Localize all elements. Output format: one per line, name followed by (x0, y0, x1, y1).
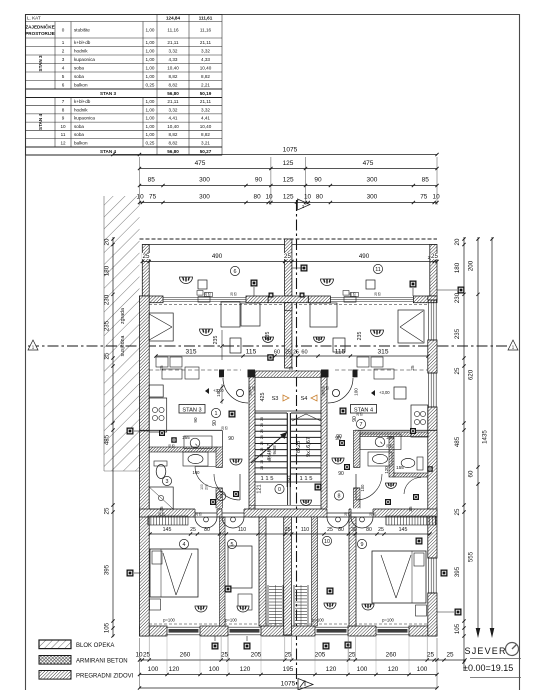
svg-text:85: 85 (422, 177, 430, 184)
svg-text:75: 75 (149, 194, 157, 201)
svg-text:3,32: 3,32 (201, 48, 210, 53)
svg-text:475: 475 (195, 160, 206, 167)
svg-text:555: 555 (468, 551, 475, 562)
svg-text:100: 100 (216, 389, 221, 397)
svg-text:5: 5 (231, 542, 234, 548)
svg-text:90: 90 (314, 177, 322, 184)
svg-text:90: 90 (228, 436, 234, 442)
svg-text:PROSTORIJE: PROSTORIJE (25, 31, 55, 36)
svg-text:205: 205 (251, 652, 262, 659)
svg-text:11: 11 (375, 267, 381, 273)
svg-text:25: 25 (143, 253, 150, 260)
svg-text:1,00: 1,00 (146, 65, 155, 70)
svg-text:6: 6 (234, 269, 237, 275)
svg-text:S3: S3 (272, 396, 279, 402)
svg-text:8,82: 8,82 (169, 82, 178, 87)
svg-text:200: 200 (205, 484, 209, 490)
svg-text:100: 100 (322, 390, 326, 396)
svg-text:100: 100 (354, 388, 359, 396)
svg-text:zgrada: zgrada (120, 308, 126, 324)
svg-text:1435: 1435 (482, 430, 489, 444)
svg-text:315: 315 (377, 349, 388, 356)
svg-text:kupaonica: kupaonica (74, 57, 95, 62)
svg-text:p=100: p=100 (312, 618, 324, 623)
svg-text:05: 05 (353, 292, 357, 296)
svg-text:25: 25 (454, 508, 461, 515)
svg-text:50,27: 50,27 (200, 149, 212, 154)
svg-text:120: 120 (240, 666, 251, 673)
svg-text:7: 7 (62, 99, 65, 104)
svg-text:75: 75 (420, 194, 428, 201)
svg-text:hodnik: hodnik (74, 107, 88, 112)
svg-text:10: 10 (304, 194, 312, 201)
svg-text:balkon: balkon (74, 82, 88, 87)
svg-text:56,80: 56,80 (167, 91, 179, 96)
svg-text:50,19: 50,19 (200, 91, 212, 96)
svg-text:05: 05 (234, 292, 238, 296)
svg-text:28: 28 (260, 423, 264, 427)
svg-text:300: 300 (199, 177, 210, 184)
svg-text:kupaonica: kupaonica (74, 116, 95, 121)
svg-text:255: 255 (386, 435, 394, 440)
svg-text:80: 80 (316, 194, 324, 201)
svg-text:9x28: 9x28 (272, 445, 277, 455)
svg-text:25: 25 (104, 352, 111, 359)
svg-text:1,00: 1,00 (146, 28, 155, 33)
svg-text:235: 235 (454, 328, 461, 339)
svg-text:12: 12 (60, 140, 66, 145)
svg-text:235: 235 (104, 320, 111, 331)
svg-text:120: 120 (388, 666, 399, 673)
svg-text:100: 100 (249, 390, 253, 396)
svg-text:1,00: 1,00 (146, 107, 155, 112)
svg-text:4: 4 (183, 542, 186, 548)
svg-text:60: 60 (468, 470, 475, 477)
svg-text:100: 100 (148, 666, 159, 673)
svg-text:ZAJEDNIČKE: ZAJEDNIČKE (25, 24, 54, 30)
svg-text:395: 395 (104, 564, 111, 575)
svg-text:28: 28 (260, 435, 264, 439)
svg-text:10,40: 10,40 (200, 124, 212, 129)
svg-text:8,82: 8,82 (169, 132, 178, 137)
svg-text:1,00: 1,00 (146, 48, 155, 53)
svg-text:90: 90 (352, 416, 358, 422)
svg-text:8,82: 8,82 (201, 132, 210, 137)
svg-text:300: 300 (367, 194, 378, 201)
svg-text:9: 9 (62, 116, 65, 121)
svg-text:230: 230 (104, 294, 111, 305)
svg-text:05: 05 (373, 512, 377, 516)
svg-text:0: 0 (62, 28, 65, 33)
svg-text:soba: soba (74, 65, 84, 70)
svg-text:S4: S4 (301, 396, 308, 402)
svg-text:1,00: 1,00 (146, 116, 155, 121)
svg-text:25: 25 (348, 652, 356, 659)
svg-text:3: 3 (62, 57, 65, 62)
svg-text:4,41: 4,41 (169, 116, 178, 121)
svg-text:0,25: 0,25 (146, 82, 155, 87)
svg-text:p=100: p=100 (382, 618, 394, 623)
svg-text:9x16,67: 9x16,67 (306, 437, 312, 457)
svg-text:235: 235 (213, 336, 219, 345)
svg-text:110: 110 (238, 527, 246, 533)
svg-text:195: 195 (283, 666, 294, 673)
svg-text:05: 05 (208, 292, 212, 296)
svg-text:111,61: 111,61 (199, 16, 213, 21)
svg-text:125: 125 (283, 160, 294, 167)
svg-text:25: 25 (221, 652, 229, 659)
svg-text:121: 121 (257, 484, 263, 493)
svg-text:05: 05 (360, 412, 364, 416)
svg-text:25: 25 (284, 253, 291, 260)
svg-text:485: 485 (454, 436, 461, 447)
svg-text:8,82: 8,82 (169, 140, 178, 145)
svg-text:25: 25 (446, 652, 454, 659)
svg-text:3: 3 (166, 479, 169, 485)
svg-text:100: 100 (200, 484, 204, 490)
svg-text:11,16: 11,16 (200, 28, 212, 33)
svg-text:7: 7 (360, 422, 363, 428)
svg-text:20: 20 (104, 238, 111, 245)
svg-text:8x28: 8x28 (296, 441, 302, 453)
svg-text:28: 28 (260, 441, 264, 445)
svg-text:3,32: 3,32 (169, 107, 178, 112)
svg-text:100: 100 (417, 666, 428, 673)
svg-text:85: 85 (148, 177, 156, 184)
svg-text:25: 25 (159, 365, 164, 371)
svg-text:1075: 1075 (281, 681, 296, 688)
svg-text:300: 300 (366, 177, 377, 184)
svg-text:3,32: 3,32 (169, 48, 178, 53)
svg-text:9: 9 (361, 542, 364, 548)
svg-text:1: 1 (215, 411, 218, 417)
svg-text:21,11: 21,11 (167, 40, 179, 45)
svg-text:28: 28 (260, 448, 264, 452)
svg-text:k+bl+db: k+bl+db (74, 99, 91, 104)
svg-text:260: 260 (180, 652, 191, 659)
svg-text:25: 25 (289, 366, 294, 371)
svg-text:balkon: balkon (74, 140, 88, 145)
svg-text:1: 1 (62, 40, 65, 45)
svg-text:90: 90 (338, 471, 344, 477)
svg-text:90: 90 (255, 177, 263, 184)
svg-text:11: 11 (61, 132, 66, 137)
svg-text:1,00: 1,00 (146, 40, 155, 45)
svg-text:124,84: 124,84 (166, 16, 180, 21)
svg-text:90: 90 (336, 434, 342, 440)
svg-text:4,41: 4,41 (201, 116, 210, 121)
svg-text:10,40: 10,40 (167, 65, 179, 70)
svg-text:p=100: p=100 (225, 618, 237, 623)
svg-text:115: 115 (246, 349, 257, 356)
svg-text:8: 8 (62, 107, 65, 112)
svg-text:490: 490 (359, 253, 370, 260)
svg-text:10: 10 (137, 194, 145, 201)
svg-text:4: 4 (62, 65, 65, 70)
svg-text:10: 10 (324, 539, 330, 545)
svg-text:21,11: 21,11 (167, 99, 179, 104)
svg-text:soba: soba (74, 74, 84, 79)
svg-text:180: 180 (104, 265, 111, 276)
svg-text:STAN 3: STAN 3 (100, 91, 116, 96)
svg-text:soba: soba (74, 124, 84, 129)
svg-text:+3,00: +3,00 (379, 390, 390, 395)
svg-text:10: 10 (60, 124, 66, 129)
svg-text:300: 300 (199, 194, 210, 201)
svg-text:100: 100 (360, 484, 365, 492)
svg-text:1075: 1075 (283, 147, 298, 154)
svg-text:4,33: 4,33 (169, 57, 178, 62)
svg-text:115: 115 (335, 349, 346, 356)
svg-text:8,82: 8,82 (169, 74, 178, 79)
svg-text:56,80: 56,80 (167, 149, 179, 154)
svg-text:235: 235 (265, 332, 271, 341)
svg-text:10: 10 (433, 194, 441, 201)
svg-text:PREGRADNI ZIDOVI: PREGRADNI ZIDOVI (76, 673, 134, 679)
svg-text:25: 25 (427, 652, 435, 659)
svg-text:1,00: 1,00 (146, 99, 155, 104)
svg-text:25: 25 (378, 527, 384, 533)
svg-text:25: 25 (408, 506, 413, 512)
svg-text:60: 60 (274, 350, 280, 356)
svg-text:28: 28 (260, 417, 264, 421)
svg-text:8: 8 (338, 493, 341, 499)
svg-text:80: 80 (254, 194, 262, 201)
svg-text:05: 05 (348, 512, 352, 516)
svg-text:1,00: 1,00 (146, 132, 155, 137)
svg-text:25: 25 (284, 652, 292, 659)
svg-text:100: 100 (209, 666, 220, 673)
svg-text:2,21: 2,21 (201, 82, 210, 87)
svg-text:3,32: 3,32 (201, 107, 210, 112)
svg-text:315: 315 (185, 349, 196, 356)
svg-text:80: 80 (366, 527, 372, 533)
svg-text:425: 425 (260, 393, 266, 402)
svg-text:28: 28 (260, 466, 264, 470)
svg-text:k+bl+db: k+bl+db (74, 40, 91, 45)
svg-text:soba: soba (74, 132, 84, 137)
svg-text:60: 60 (301, 350, 307, 356)
svg-text:6: 6 (62, 82, 65, 87)
svg-text:05: 05 (252, 386, 256, 390)
svg-text:105: 105 (104, 622, 111, 633)
svg-text:STAN 3: STAN 3 (182, 407, 201, 413)
svg-text:25: 25 (285, 527, 291, 533)
svg-text:1,00: 1,00 (146, 74, 155, 79)
svg-text:STAN 3: STAN 3 (38, 55, 43, 71)
svg-text:20: 20 (454, 238, 461, 245)
svg-text:485: 485 (104, 434, 111, 445)
svg-text:21,11: 21,11 (200, 99, 212, 104)
svg-text:1 1 5: 1 1 5 (300, 476, 313, 482)
svg-text:p=100: p=100 (163, 618, 175, 623)
svg-text:10,40: 10,40 (200, 65, 212, 70)
svg-text:10: 10 (135, 652, 143, 659)
svg-text:±0.00=19.15: ±0.00=19.15 (463, 663, 513, 673)
svg-text:hodnik: hodnik (74, 48, 88, 53)
svg-text:25: 25 (285, 350, 291, 356)
svg-text:120: 120 (169, 666, 180, 673)
svg-text:475: 475 (363, 160, 374, 167)
svg-text:145: 145 (399, 527, 408, 533)
svg-text:620: 620 (468, 369, 475, 380)
svg-text:BLOK OPEKA: BLOK OPEKA (76, 643, 114, 649)
svg-text:2: 2 (220, 494, 223, 500)
svg-text:490: 490 (212, 253, 223, 260)
svg-text:25: 25 (410, 365, 415, 371)
svg-text:90: 90 (193, 417, 198, 423)
svg-text:10,40: 10,40 (167, 124, 179, 129)
svg-text:25: 25 (104, 507, 111, 514)
svg-text:05: 05 (172, 444, 176, 448)
svg-text:105: 105 (454, 623, 461, 634)
svg-text:110: 110 (301, 527, 309, 533)
svg-text:28: 28 (260, 429, 264, 433)
svg-text:120: 120 (326, 666, 337, 673)
svg-text:05: 05 (378, 292, 382, 296)
svg-text:25: 25 (327, 527, 333, 533)
svg-text:395: 395 (454, 566, 461, 577)
svg-text:05: 05 (162, 512, 166, 516)
svg-text:25: 25 (431, 253, 438, 260)
svg-text:05: 05 (225, 426, 229, 430)
svg-text:05: 05 (199, 512, 203, 516)
svg-text:4,33: 4,33 (201, 57, 210, 62)
svg-text:21,11: 21,11 (200, 40, 212, 45)
svg-text:0: 0 (278, 487, 281, 493)
svg-text:25: 25 (293, 350, 299, 356)
svg-text:230: 230 (454, 292, 461, 303)
svg-text:1,00: 1,00 (146, 57, 155, 62)
svg-text:1,00: 1,00 (146, 124, 155, 129)
svg-text:205: 205 (315, 652, 326, 659)
svg-text:180: 180 (454, 262, 461, 273)
svg-text:1 1 5: 1 1 5 (261, 476, 274, 482)
svg-text:260: 260 (386, 652, 397, 659)
svg-text:05: 05 (390, 444, 394, 448)
svg-text:9x 16,17: 9x 16,17 (266, 443, 271, 460)
svg-text:30: 30 (351, 527, 357, 533)
svg-text:155: 155 (396, 465, 404, 470)
svg-text:8,82: 8,82 (201, 74, 210, 79)
svg-text:25: 25 (454, 367, 461, 374)
svg-text:ARMIRANI BETON: ARMIRANI BETON (76, 658, 128, 664)
svg-text:0,25: 0,25 (146, 140, 155, 145)
svg-text:120: 120 (384, 466, 389, 474)
svg-text:3,21: 3,21 (201, 140, 210, 145)
svg-text:100: 100 (357, 666, 368, 673)
svg-text:25: 25 (159, 506, 164, 512)
svg-text:200: 200 (468, 260, 475, 271)
svg-text:11,16: 11,16 (167, 28, 179, 33)
svg-text:90: 90 (212, 420, 218, 426)
svg-text:255: 255 (182, 435, 190, 440)
svg-text:25: 25 (190, 527, 196, 533)
svg-text:5: 5 (62, 74, 65, 79)
svg-text:125: 125 (283, 194, 294, 201)
svg-text:125: 125 (283, 177, 294, 184)
svg-text:100: 100 (193, 470, 201, 475)
svg-text:10: 10 (265, 194, 273, 201)
svg-text:28: 28 (260, 460, 264, 464)
svg-text:SJEVER: SJEVER (465, 646, 507, 656)
svg-text:235: 235 (357, 332, 363, 341)
svg-text:stubište: stubište (74, 28, 90, 33)
svg-text:STAN 4: STAN 4 (38, 114, 43, 130)
svg-text:145: 145 (163, 527, 172, 533)
svg-text:2: 2 (62, 48, 65, 53)
svg-text:05: 05 (326, 386, 330, 390)
svg-text:L. KAT: L. KAT (27, 16, 41, 21)
